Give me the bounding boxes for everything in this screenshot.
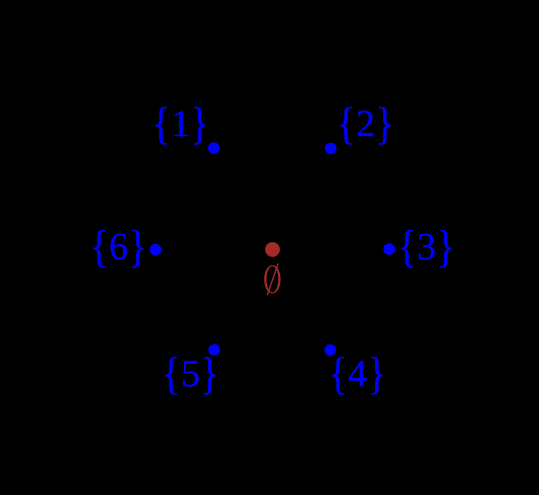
node {4} vertex dot <box>325 344 337 356</box>
node {2} vertex dot <box>325 143 337 155</box>
label {3} <box>398 228 456 266</box>
label empty-set: slashed oval glyph <box>264 263 280 295</box>
node empty-set vertex dot (center, red) <box>265 242 280 257</box>
label {1} <box>152 105 210 143</box>
node {6} vertex dot <box>150 244 162 256</box>
label {4} <box>329 355 387 393</box>
node {1} vertex dot <box>208 142 220 154</box>
node {3} vertex dot <box>383 243 395 255</box>
label {5} <box>162 355 220 393</box>
label {6} <box>90 228 148 266</box>
node {5} vertex dot <box>208 344 220 356</box>
label {2} <box>337 105 395 143</box>
